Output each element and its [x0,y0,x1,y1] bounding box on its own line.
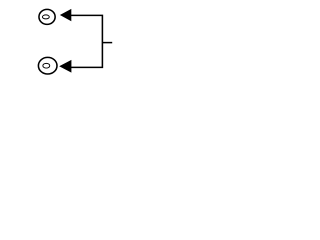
lamp L1 outer ellipse [39,9,55,24]
arrowhead to L2 [59,60,71,73]
arrowhead to L1 [60,9,71,21]
lamp L2 inner ellipse [43,63,50,68]
wire stub at node [102,42,112,44]
lamp L1 inner ellipse [42,15,49,19]
wire from arrow L1 to bus to arrow L2 [71,15,103,67]
lamp L2 outer ellipse [38,57,57,74]
